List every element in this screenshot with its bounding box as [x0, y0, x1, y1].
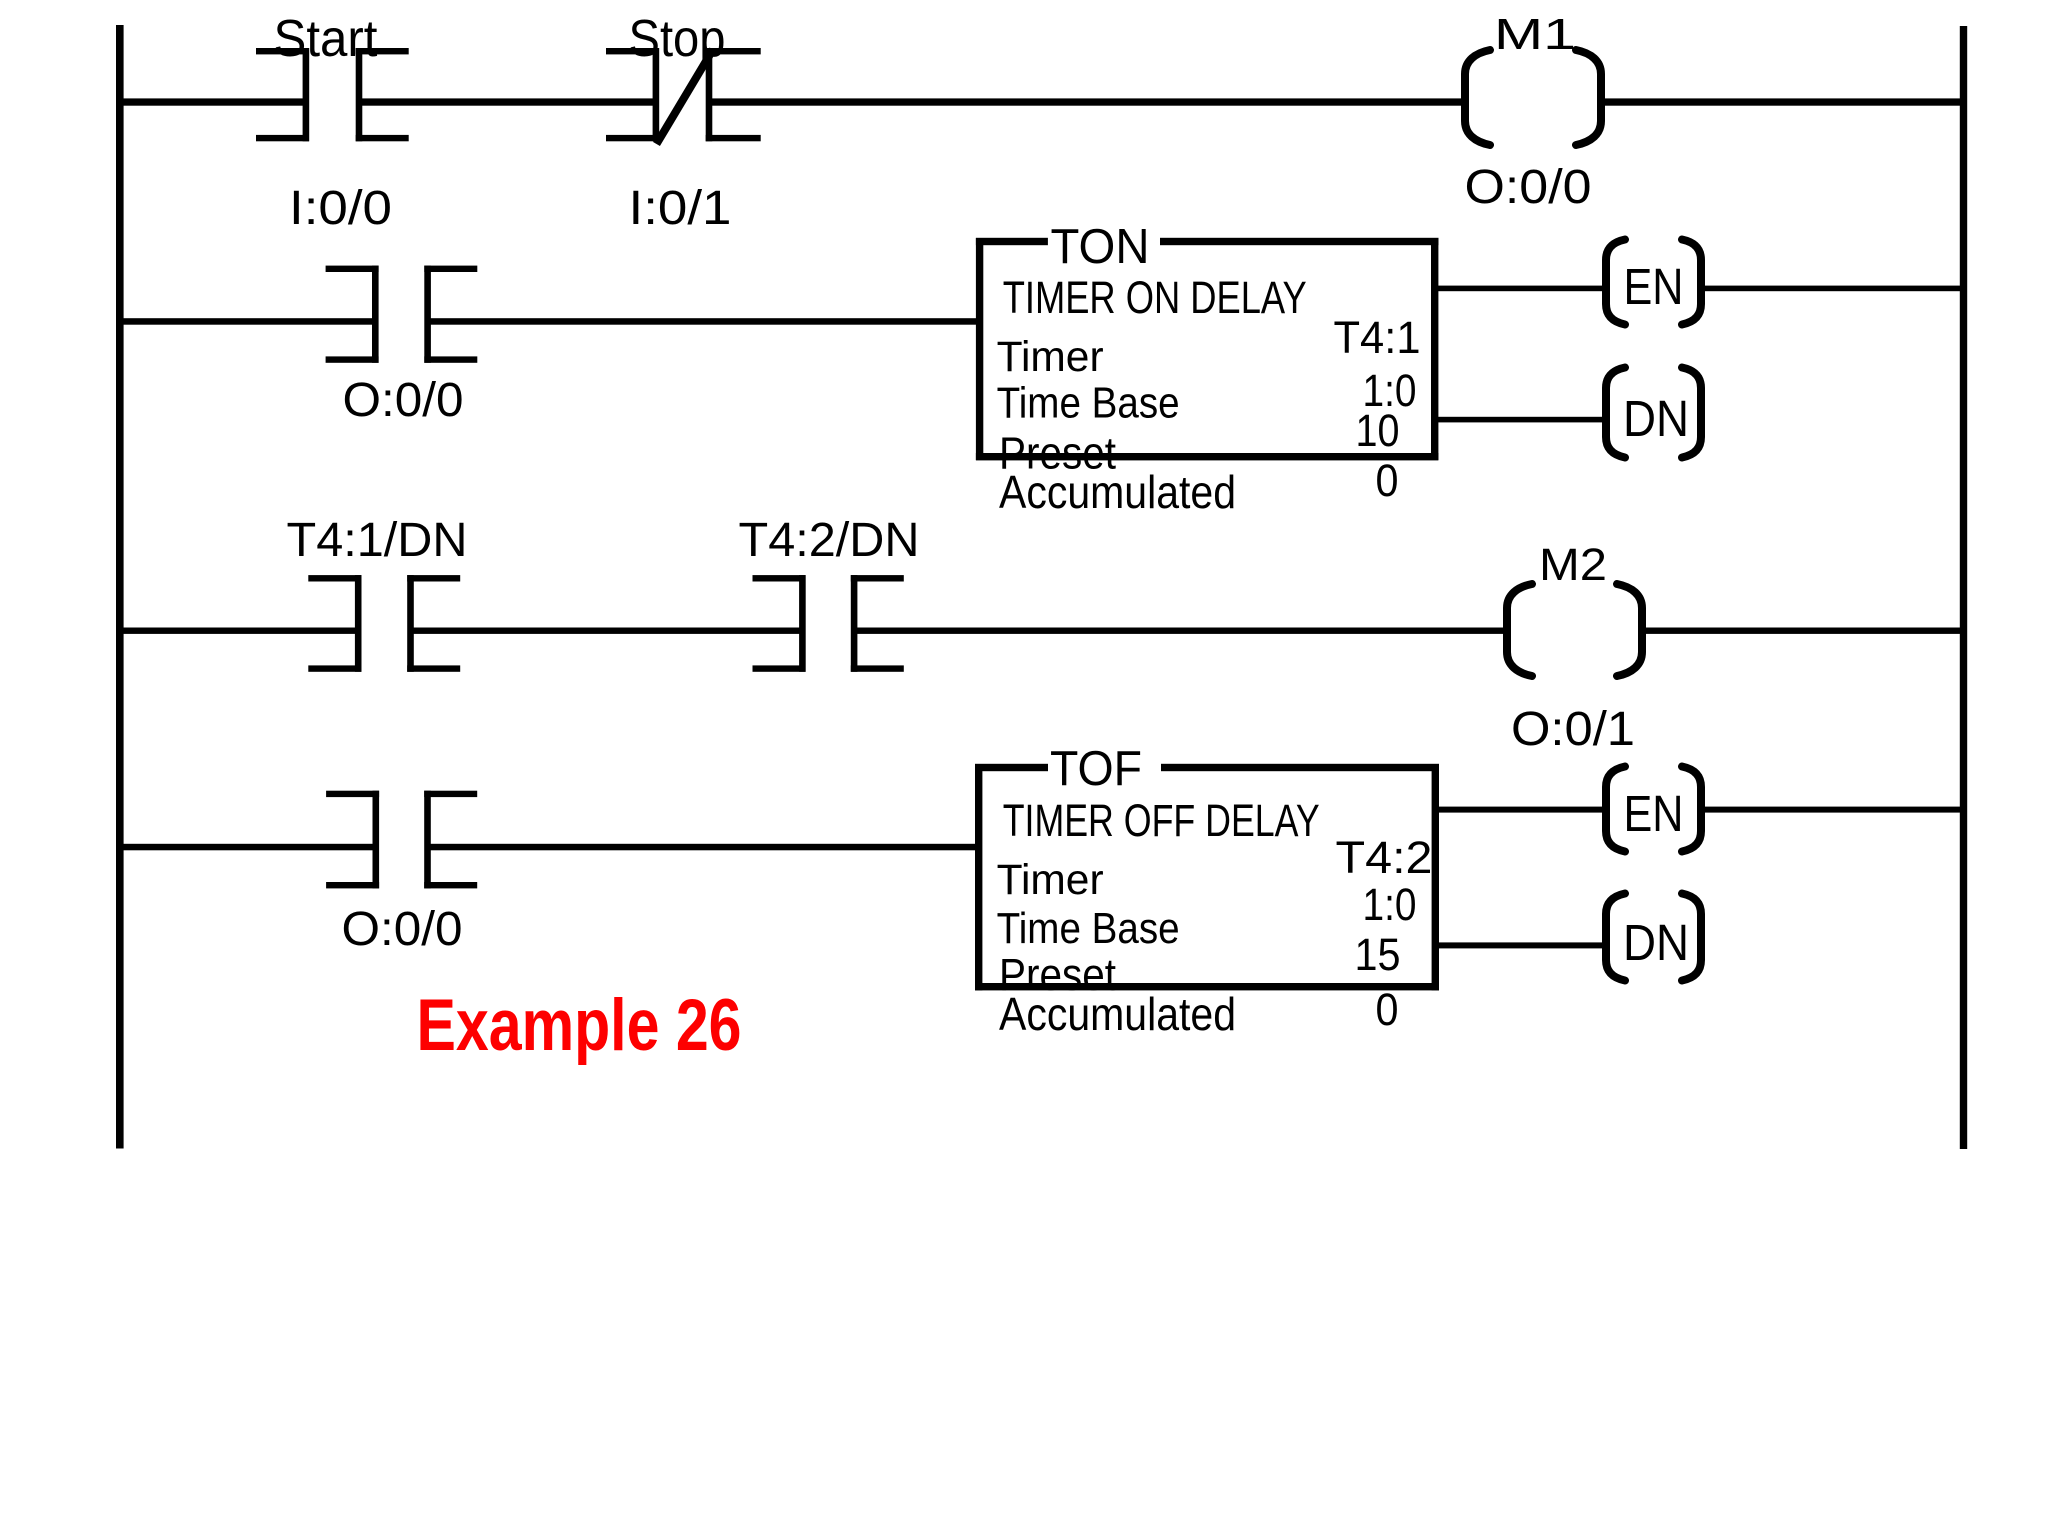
- svg-text:TIMER OFF DELAY: TIMER OFF DELAY: [1003, 795, 1320, 846]
- svg-text:Accumulated: Accumulated: [999, 988, 1236, 1040]
- rung 3 wire: T4:1/DN to T4:2/DN: [411, 628, 802, 634]
- svg-text:1:0: 1:0: [1363, 879, 1417, 930]
- svg-text:T4:1: T4:1: [1334, 312, 1421, 363]
- wire EN output (TOF) to right rail: [1700, 807, 1962, 813]
- svg-text:T4:1/DN: T4:1/DN: [287, 514, 468, 567]
- svg-text:0: 0: [1376, 455, 1399, 506]
- rung 3 wire: coil M2 to right rail: [1640, 628, 1962, 634]
- svg-text:O:0/0: O:0/0: [343, 374, 464, 427]
- svg-text:I:0/1: I:0/1: [629, 182, 732, 235]
- svg-text:M2: M2: [1539, 539, 1607, 590]
- wire TOF box to DN output: [1438, 942, 1607, 948]
- svg-text:TON: TON: [1051, 220, 1150, 274]
- contact Stop I:0/1 (normally closed): [606, 48, 761, 141]
- svg-text:Accumulated: Accumulated: [999, 466, 1236, 518]
- left power rail: [116, 25, 124, 1149]
- svg-text:DN: DN: [1623, 914, 1689, 971]
- rung 1 wire: rail to Start contact: [120, 98, 306, 105]
- rung 1 wire: Start to Stop: [356, 98, 656, 105]
- svg-text:10: 10: [1356, 405, 1400, 456]
- svg-text:T4:2/DN: T4:2/DN: [739, 514, 920, 567]
- svg-text:0: 0: [1376, 984, 1399, 1035]
- svg-text:TIMER ON DELAY: TIMER ON DELAY: [1003, 272, 1307, 323]
- svg-text:M1: M1: [1494, 10, 1576, 59]
- wire TON box to DN output: [1437, 417, 1607, 423]
- svg-text:Stop: Stop: [629, 10, 726, 68]
- rung 1 wire: coil M1 to right rail: [1599, 98, 1962, 105]
- wire TOF box to EN output: [1438, 807, 1607, 813]
- svg-text:15: 15: [1355, 929, 1401, 980]
- rung 4 wire: rail to contact: [120, 844, 375, 851]
- svg-text:O:0/1: O:0/1: [1511, 703, 1635, 756]
- output EN (TOF): [1606, 767, 1701, 852]
- rung 4 wire: contact to TOF box: [428, 844, 976, 851]
- svg-text:DN: DN: [1623, 390, 1689, 447]
- output DN (TOF): [1606, 894, 1701, 981]
- rung 1 wire: Stop to coil M1: [709, 98, 1467, 105]
- right power rail: [1960, 26, 1967, 1149]
- contact O:0/0 (rung 4, normally open): [326, 791, 477, 889]
- wire TON box to EN output: [1437, 286, 1607, 292]
- rung 2 wire: rail to contact: [120, 318, 375, 325]
- svg-text:Time Base: Time Base: [997, 904, 1180, 953]
- rung 3 wire: T4:2/DN to coil M2: [854, 628, 1509, 634]
- contact T4:1/DN (normally open): [308, 575, 460, 672]
- svg-text:Example 26: Example 26: [417, 985, 742, 1066]
- rung 3 wire: rail to contact T4:1/DN: [120, 628, 358, 634]
- contact T4:2/DN (normally open): [753, 575, 904, 672]
- svg-text:T4:2: T4:2: [1336, 832, 1433, 883]
- contact O:0/0 (rung 2, normally open): [326, 266, 478, 363]
- svg-text:Timer: Timer: [997, 856, 1104, 904]
- timer block TOF T4:2: [975, 764, 1439, 991]
- timer block TON T4:1: [976, 238, 1439, 461]
- coil M2 O:0/1: [1507, 584, 1642, 676]
- svg-text:I:0/0: I:0/0: [289, 182, 392, 235]
- svg-text:Timer: Timer: [997, 333, 1104, 381]
- contact Start I:0/0 (normally open): [256, 48, 409, 141]
- svg-text:EN: EN: [1624, 785, 1684, 842]
- svg-text:EN: EN: [1624, 258, 1684, 315]
- svg-text:O:0/0: O:0/0: [1465, 161, 1592, 214]
- output EN (TON): [1606, 240, 1701, 325]
- rung 2 wire: contact to TON box: [428, 318, 977, 325]
- wire EN output to right rail: [1700, 286, 1962, 292]
- svg-text:Start: Start: [274, 10, 379, 68]
- svg-text:Time Base: Time Base: [997, 379, 1180, 428]
- svg-text:O:0/0: O:0/0: [342, 903, 463, 956]
- output DN (TON): [1606, 368, 1701, 458]
- coil M1 O:0/0: [1465, 50, 1601, 145]
- svg-text:TOF: TOF: [1050, 742, 1142, 796]
- NC slash of Stop contact: [657, 50, 714, 145]
